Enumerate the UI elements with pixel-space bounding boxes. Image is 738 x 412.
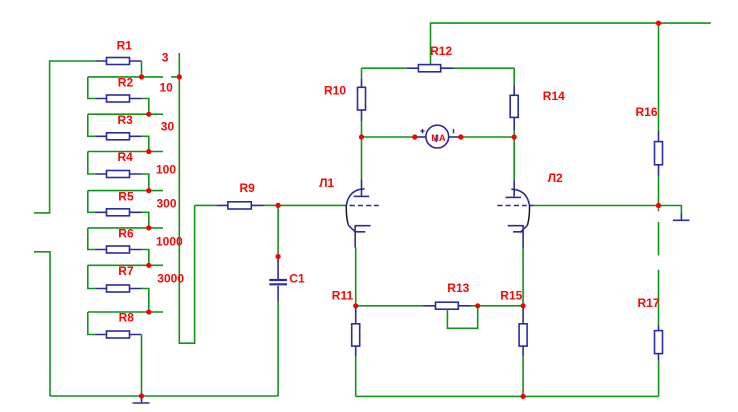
- svg-text:300: 300: [157, 197, 177, 211]
- wire L2 cathode down: [522, 248, 524, 306]
- wire R9 to grid node: [264, 204, 279, 206]
- wire R8 to ground bus: [141, 335, 143, 397]
- svg-text:1000: 1000: [156, 234, 183, 248]
- resistor R10: [358, 68, 366, 137]
- wire R2 to tap row 2: [142, 99, 149, 115]
- node R11 top: [353, 303, 358, 308]
- svg-text:R7: R7: [118, 264, 134, 278]
- wire L1 anode: [361, 137, 363, 180]
- svg-text:10: 10: [160, 81, 174, 95]
- svg-text:R1: R1: [117, 38, 133, 52]
- wire tap row 4: [88, 190, 163, 192]
- node C1 top: [276, 254, 281, 259]
- wire L2 grid to right: [534, 205, 659, 207]
- svg-text:3: 3: [162, 51, 169, 65]
- wire R1 to tap row 1: [141, 61, 143, 77]
- node R10 anode junction: [359, 134, 364, 139]
- node R1-R2 junction: [139, 74, 144, 79]
- resistor R11: [352, 307, 360, 397]
- wire tap row 5: [88, 227, 163, 229]
- node R9 output: [276, 203, 281, 208]
- node R7-R8 junction: [146, 309, 151, 314]
- wire meter line right: [461, 136, 514, 138]
- svg-text:R2: R2: [118, 75, 134, 89]
- resistor R9: [217, 202, 264, 209]
- resistor R16: [655, 23, 663, 205]
- node selector bus tap: [177, 74, 182, 79]
- resistor R2: [96, 95, 142, 102]
- svg-text:МА: МА: [431, 133, 446, 143]
- ground right: [673, 213, 690, 220]
- wire tap row 7: [88, 311, 163, 313]
- resistor R15: [519, 307, 527, 397]
- wire R6 to tap row 6: [142, 250, 149, 266]
- svg-text:R9: R9: [240, 181, 256, 195]
- svg-text:30: 30: [161, 119, 175, 133]
- resistor R5: [96, 209, 142, 216]
- wire selector output to R9: [195, 204, 217, 206]
- wire R2 loop: [88, 77, 96, 99]
- wire bridge top rail: [362, 67, 515, 69]
- wire bottom-left bus: [50, 395, 278, 397]
- wire R13 wiper loop: [447, 306, 477, 329]
- wire tap row 1: [88, 76, 163, 78]
- node R13 right: [475, 303, 480, 308]
- wire R6 loop: [88, 228, 96, 250]
- resistor R4: [96, 171, 142, 178]
- wire R4 loop: [88, 152, 96, 175]
- wire grid node to tube L1: [278, 204, 346, 206]
- node R4-R5 junction: [146, 188, 151, 193]
- wire dashed link to R17: [658, 208, 660, 325]
- wire bottom-right bus: [356, 395, 659, 397]
- resistor R12: [407, 65, 454, 72]
- resistor R13: [423, 302, 472, 309]
- svg-text:100: 100: [156, 163, 176, 177]
- node ground junction: [139, 393, 144, 398]
- resistor R7: [96, 285, 142, 292]
- svg-text:3000: 3000: [157, 271, 184, 285]
- wire selector bus: [179, 53, 194, 343]
- svg-text:R4: R4: [118, 150, 134, 164]
- resistor R14: [510, 68, 518, 137]
- node grid-R16 junction: [656, 203, 661, 208]
- wire L2 anode: [513, 137, 515, 181]
- node R14 anode junction: [512, 134, 517, 139]
- wire R4 to tap row 4: [142, 174, 149, 191]
- node meter left: [412, 134, 417, 139]
- wire L1 cathode down: [355, 248, 357, 306]
- capacitor C1: [269, 257, 287, 302]
- svg-text:R11: R11: [332, 289, 354, 303]
- node R3-R4 junction: [146, 149, 151, 154]
- tube L2: [497, 181, 533, 248]
- tube L1: [346, 180, 379, 248]
- svg-text:R15: R15: [500, 289, 522, 303]
- node R6-R7 junction: [146, 263, 151, 268]
- wire input terminal top-left to R1: [34, 61, 96, 213]
- svg-text:Л1: Л1: [319, 176, 334, 190]
- wire top supply rail: [431, 23, 711, 64]
- resistor R6: [96, 246, 142, 253]
- wire R7 to tap row 7: [142, 289, 149, 313]
- svg-text:R14: R14: [543, 89, 565, 103]
- wire tap row 3: [88, 151, 163, 153]
- svg-text:R3: R3: [118, 113, 134, 127]
- wire R5 loop: [88, 191, 96, 213]
- resistor R8: [96, 331, 142, 338]
- svg-text:R13: R13: [447, 281, 469, 295]
- node R15 bottom: [521, 394, 526, 399]
- node R5-R6 junction: [146, 225, 151, 230]
- svg-text:R6: R6: [118, 226, 134, 240]
- svg-text:C1: C1: [289, 272, 305, 286]
- svg-text:R17: R17: [638, 296, 660, 310]
- resistor R1: [96, 58, 142, 65]
- resistor R17: [655, 325, 663, 360]
- wire grid node down to C1: [277, 205, 279, 256]
- wire to right ground: [659, 206, 682, 214]
- ground left: [133, 396, 150, 403]
- wire meter line left: [362, 136, 415, 138]
- wire R13 to R15 row: [470, 305, 523, 307]
- wire R3 loop: [88, 114, 96, 136]
- svg-text:R10: R10: [324, 84, 346, 98]
- svg-text:R12: R12: [430, 44, 452, 58]
- svg-text:R5: R5: [118, 189, 134, 203]
- wire C1 to bottom-left bus: [277, 302, 279, 396]
- wire R17 to bottom bus: [658, 361, 660, 397]
- wire input terminal lower-left: [34, 252, 50, 396]
- wire R3 to tap row 3: [142, 136, 149, 151]
- meter MA: [415, 125, 461, 148]
- wire tap row 6: [88, 264, 163, 266]
- wire tap row 2: [88, 113, 163, 115]
- wire R7 loop: [88, 265, 96, 288]
- wire R5 to tap row 5: [142, 212, 149, 228]
- resistor R3: [96, 133, 142, 140]
- svg-text:R16: R16: [636, 105, 658, 119]
- wire cathode row to R13: [356, 305, 426, 307]
- svg-text:Л2: Л2: [548, 171, 563, 185]
- svg-text:R8: R8: [119, 311, 135, 325]
- node R15 top: [521, 303, 526, 308]
- node R2-R3 junction: [146, 112, 151, 117]
- node meter right: [458, 134, 463, 139]
- node supply rail / R16: [656, 21, 661, 26]
- wire R8 loop: [88, 312, 96, 335]
- wire switch contact row 1: [171, 76, 179, 78]
